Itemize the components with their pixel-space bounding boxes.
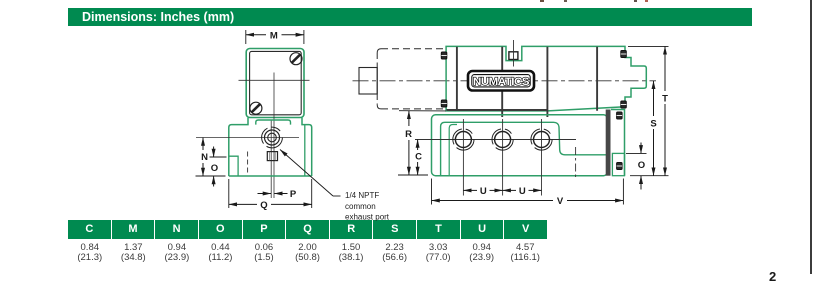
svg-text:common: common	[345, 202, 376, 211]
dimension U left	[463, 186, 502, 197]
page right border	[810, 0, 812, 274]
svg-text:1/4 NPTF: 1/4 NPTF	[345, 191, 379, 200]
svg-text:O: O	[638, 160, 645, 171]
valve body section line 3	[546, 47, 548, 117]
dimension O	[210, 147, 227, 187]
svg-text:T: T	[662, 94, 668, 105]
top screw plug	[509, 52, 518, 60]
cut-off text specks at very top	[540, 0, 544, 2]
box horizontal centerline	[239, 79, 310, 81]
screw bottom-left	[250, 102, 262, 114]
port vertical centerline	[270, 120, 272, 198]
hidden port centerline dash-dot	[575, 147, 577, 180]
svg-text:NUMATICS: NUMATICS	[473, 76, 529, 88]
valve body section line 2	[501, 47, 503, 117]
svg-text:N: N	[201, 152, 208, 163]
base outline green left	[229, 118, 248, 176]
valve body bottom dark edge	[447, 109, 549, 111]
manifold base inner contour	[441, 122, 606, 175]
ports horizontal centerline	[415, 139, 576, 141]
port 3	[531, 119, 552, 196]
svg-text:S: S	[650, 119, 656, 130]
dimension Q	[229, 179, 312, 211]
base inner vertical right	[304, 125, 306, 176]
solenoid hidden outline (dashed)	[377, 49, 445, 109]
solenoid box outer green outline	[246, 49, 304, 118]
solenoid end block	[359, 68, 377, 95]
dimension C	[415, 140, 422, 176]
valve body section line 4	[596, 47, 598, 111]
dimension U right	[503, 186, 542, 197]
end plate bottom notch	[612, 153, 624, 175]
body right screws	[621, 51, 627, 58]
svg-text:U: U	[519, 186, 526, 197]
body left screws	[441, 52, 447, 59]
svg-text:R: R	[405, 129, 412, 140]
svg-text:V: V	[557, 196, 564, 207]
svg-text:exhaust port: exhaust port	[345, 212, 390, 221]
cut-off page number bottom right	[769, 269, 776, 284]
valve body green outline	[446, 46, 646, 111]
dimension table	[68, 220, 547, 263]
svg-text:O: O	[211, 163, 218, 174]
leader line to exhaust note	[333, 195, 341, 197]
svg-text:Q: Q	[260, 200, 267, 211]
base bottom edge	[229, 175, 312, 177]
green section header bar	[68, 8, 752, 26]
dimension T	[628, 46, 669, 175]
base outline green right	[302, 118, 312, 176]
box center cross	[273, 73, 275, 89]
port circles	[268, 133, 277, 142]
body vertical centerline	[273, 88, 275, 198]
dimension N	[196, 138, 226, 177]
valve body section line 1	[456, 47, 458, 111]
svg-text:U: U	[480, 186, 487, 197]
svg-text:M: M	[270, 31, 278, 42]
base left step ledge	[229, 156, 238, 176]
solenoid box inner black outline	[250, 51, 302, 114]
hidden line dashed	[247, 152, 249, 175]
end plate screws	[617, 112, 623, 119]
manifold base outer green outline	[432, 115, 608, 176]
screw top-right	[290, 53, 302, 65]
dimension S	[650, 81, 656, 176]
end plate green outline	[611, 110, 625, 176]
dimension P	[258, 189, 297, 200]
dimension V	[432, 179, 624, 208]
dimension R	[398, 111, 446, 175]
main horizontal centerline	[353, 80, 657, 82]
end plate dark band	[606, 110, 611, 176]
svg-text:C: C	[415, 152, 422, 163]
port horizontal centerline	[196, 137, 299, 139]
dimension O right	[626, 143, 647, 190]
svg-text:P: P	[290, 189, 297, 200]
port 1	[453, 119, 474, 196]
base neck seam	[256, 120, 291, 125]
port 2	[492, 119, 513, 196]
exhaust port square	[267, 152, 277, 161]
manifold base inner contour second line	[449, 125, 457, 176]
Numatics logo badge	[468, 71, 534, 91]
dimension M	[246, 30, 304, 44]
